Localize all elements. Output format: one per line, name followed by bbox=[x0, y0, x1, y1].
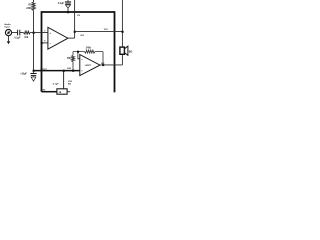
svg-text:8: 8 bbox=[44, 41, 46, 43]
speaker LS1 bbox=[120, 47, 125, 54]
capacitor C2 supply bypass with ground bbox=[67, 0, 69, 2]
wire: feedback row op-amp2 bbox=[73, 51, 103, 53]
wire: op-amp1 output bbox=[68, 37, 75, 39]
svg-text:8Ω: 8Ω bbox=[129, 50, 133, 54]
node: dot on left bus at inverting input bbox=[41, 42, 43, 44]
svg-text:VS: VS bbox=[77, 15, 80, 17]
wire: input line bbox=[11, 32, 48, 34]
ground below jack bbox=[7, 41, 11, 44]
node: dot output riser and top link bbox=[74, 31, 76, 33]
op-amp U2 bbox=[80, 55, 100, 76]
wire: box right stub bbox=[67, 91, 70, 93]
resistor R2 10k input bbox=[24, 31, 31, 34]
svg-text:1k: 1k bbox=[59, 92, 62, 94]
svg-text:V01: V01 bbox=[104, 29, 109, 31]
svg-text:V01: V01 bbox=[80, 35, 85, 37]
resistor R4 vertical 50k bbox=[72, 52, 74, 56]
wire: right bus vertical bbox=[114, 11, 116, 92]
node: dot speaker column link bbox=[122, 31, 124, 33]
svg-text:50k: 50k bbox=[67, 58, 72, 60]
wire: feedback down to output bbox=[102, 52, 104, 65]
svg-text:10k: 10k bbox=[24, 36, 29, 39]
capacitor C3 bias decoupling bbox=[33, 71, 35, 73]
node: input junction dot bbox=[33, 32, 35, 34]
wire: op-amp2 output to speaker column bbox=[100, 64, 122, 66]
wire: speaker column top bbox=[121, 0, 123, 47]
svg-text:+10µF: +10µF bbox=[20, 73, 27, 75]
svg-text:Input: Input bbox=[4, 26, 10, 29]
svg-text:LM377: LM377 bbox=[85, 65, 92, 67]
resistor R3 240k feedback bbox=[85, 50, 96, 53]
wire: top supply rail bbox=[42, 11, 115, 13]
wire: drop to inverting input bbox=[78, 52, 80, 59]
op-amp U1 bbox=[48, 27, 68, 49]
box RL bbox=[57, 89, 67, 94]
node: dot feedback row bbox=[77, 51, 79, 53]
wire: left bus vertical bbox=[41, 11, 43, 92]
node: dot on output bbox=[102, 64, 104, 66]
resistor R1 240k vertical bbox=[32, 2, 35, 11]
svg-text:240k: 240k bbox=[26, 7, 32, 10]
wire: bias line to op-amp 2 noninverting input bbox=[34, 70, 80, 72]
svg-text:Bypass: Bypass bbox=[40, 68, 47, 70]
wire: jack to ground stub bbox=[8, 36, 10, 42]
svg-text:0.1µF: 0.1µF bbox=[14, 36, 21, 39]
svg-text:0.1µF: 0.1µF bbox=[53, 83, 59, 85]
wire: speaker column bottom bbox=[121, 54, 123, 65]
wire: feedback column x=33.5 top stub bbox=[33, 0, 35, 2]
wire: link from output riser to speaker line bbox=[75, 31, 123, 33]
wire: column x=63.6 from bias line to box bbox=[63, 71, 65, 89]
svg-text:V02: V02 bbox=[68, 81, 73, 83]
svg-text:9: 9 bbox=[44, 30, 46, 32]
wire: op-amp1 inverting input from left bus bbox=[42, 42, 49, 44]
node: dot x=63.6 on bias line bbox=[63, 70, 65, 72]
svg-text:8Ω: 8Ω bbox=[68, 84, 71, 86]
connector J1 input jack bbox=[5, 29, 11, 35]
svg-text:2.7Ω: 2.7Ω bbox=[41, 89, 46, 91]
svg-text:VS/2: VS/2 bbox=[67, 68, 71, 70]
node: dot bypass on rail bbox=[67, 11, 69, 13]
wire: x=33.5 from resistor down to bias line bbox=[33, 11, 35, 71]
wire: bottom rail to box bbox=[42, 91, 58, 93]
svg-text:0.1µF: 0.1µF bbox=[58, 3, 65, 5]
node: dot R4 on bias line bbox=[72, 70, 74, 72]
wire: output riser x=74.6 bbox=[74, 0, 76, 38]
node: bias junction dot bbox=[33, 70, 35, 72]
capacitor C1 input coupling bbox=[18, 30, 20, 36]
svg-text:240k: 240k bbox=[86, 46, 92, 49]
ground below C3 bbox=[31, 77, 36, 81]
